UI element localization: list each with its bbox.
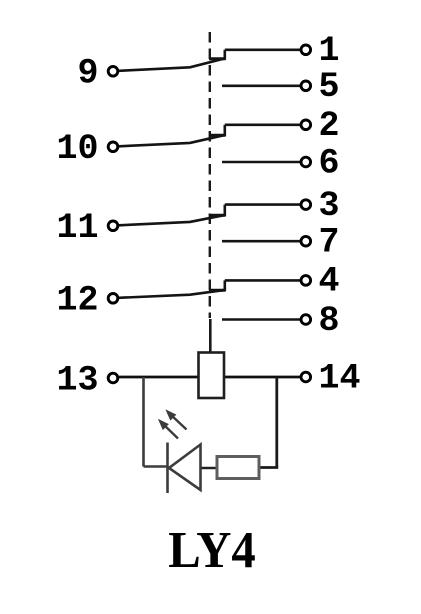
coil supply wire 13 to 14 [119,376,301,379]
terminal 14 circle [301,372,311,382]
terminal 12 circle [108,294,118,304]
LED emission arrow upper [167,411,187,430]
pole 4 armature tip [209,289,226,292]
coil K1 [199,353,225,399]
wire LED anode to resistor [202,467,219,470]
resistor R1 [217,457,259,479]
LED emission arrow lower [160,421,179,439]
svg-text:11: 11 [56,208,98,248]
svg-text:9: 9 [77,53,98,93]
pole 1 NC wire to 1 [225,48,301,51]
terminal 8 circle [301,315,311,325]
svg-text:6: 6 [319,143,340,183]
terminal 7 circle [301,236,311,246]
svg-text:10: 10 [56,129,98,169]
pole 3 NC wire to 3 [225,203,301,206]
pole 4 armature wire from 12 [119,290,224,298]
link stub to coil [209,319,212,353]
pole 2 armature tip [209,134,226,137]
svg-text:7: 7 [319,223,340,263]
LED D1 triangle [169,445,201,491]
LED branch left vertical wire [142,377,145,467]
pole 3 armature wire from 11 [119,215,224,225]
pole 2 NC wire to 2 [225,124,301,127]
svg-text:12: 12 [56,280,98,320]
pole 1 armature tip [209,57,226,60]
terminal 3 circle [301,200,311,210]
pole 4 NC step [224,280,227,291]
terminal 11 circle [108,221,118,231]
terminal 5 circle [301,81,311,91]
pole 4 NC wire to 4 [225,279,301,282]
LED D1 cathode bar [166,443,169,494]
pole 4 NO wire to 8 [222,318,301,321]
LED branch bottom wire [144,465,168,468]
terminal 1 circle [301,45,311,55]
LED branch right vertical wire [275,377,278,468]
terminal 9 circle [108,67,118,77]
svg-text:14: 14 [319,358,361,398]
pole 1 NC step [224,50,227,60]
svg-text:2: 2 [319,106,340,146]
terminal 2 circle [301,120,311,130]
mechanical link dashed line [209,32,211,318]
svg-text:5: 5 [319,67,340,107]
pole 3 NO wire to 7 [222,240,301,243]
wire resistor to right vertical [258,466,278,469]
terminal 10 circle [108,142,118,152]
pole 3 NC step [224,205,227,217]
terminal 6 circle [301,157,311,167]
pole 2 NC step [224,125,227,137]
terminal 4 circle [301,276,311,286]
pole 1 NO wire to 5 [222,85,301,88]
svg-text:LY4: LY4 [168,522,256,579]
svg-text:4: 4 [319,262,340,302]
pole 1 armature wire from 9 [119,59,224,71]
svg-text:1: 1 [319,31,340,71]
svg-text:13: 13 [56,361,98,401]
terminal 13 circle [108,373,118,383]
pole 2 NO wire to 6 [222,161,301,164]
pole 3 armature tip [209,214,226,217]
svg-text:8: 8 [319,301,340,341]
pole 2 armature wire from 10 [119,135,224,146]
svg-text:3: 3 [319,186,340,226]
